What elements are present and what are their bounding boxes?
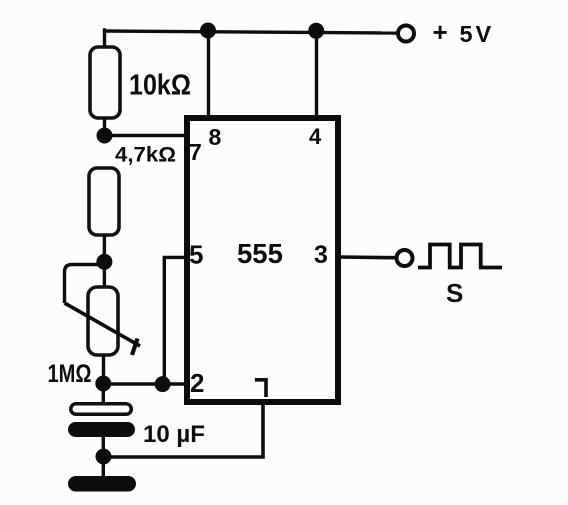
wire to pin 7 <box>105 134 187 137</box>
node junction pin8/rail <box>200 23 216 39</box>
capacitor C1 positive plate <box>71 404 132 415</box>
ground bar <box>68 476 136 492</box>
svg-text:8: 8 <box>209 124 222 150</box>
wire R1 top lead <box>105 30 107 46</box>
potentiometer P1 wiper tick <box>132 339 138 356</box>
svg-text:10kΩ: 10kΩ <box>129 70 191 102</box>
svg-text:+: + <box>433 17 448 47</box>
wire pot top lead <box>103 262 106 287</box>
wire pin 8 to rail <box>207 31 210 116</box>
svg-text:555: 555 <box>237 238 283 269</box>
node junction R2/pot <box>96 254 112 270</box>
potentiometer P1 body <box>88 287 118 355</box>
wire ground lead <box>102 457 105 477</box>
wire C1 top lead <box>102 384 105 403</box>
svg-text:2: 2 <box>190 368 204 398</box>
terminal output <box>397 250 413 266</box>
svg-text:4: 4 <box>309 124 322 149</box>
op-amp U1 555 IC body <box>187 118 338 402</box>
wire pot bottom lead <box>102 355 105 384</box>
terminal +5V <box>398 26 414 42</box>
wire R1 bottom lead <box>103 118 106 136</box>
node junction R1/R2/pin7 <box>97 128 113 144</box>
wire pin 1 to ground junction <box>104 402 264 457</box>
resistor R2 4,7kΩ <box>89 168 119 235</box>
capacitor C1 negative plate <box>68 422 135 437</box>
resistor R1 10kΩ <box>90 47 120 118</box>
svg-text:7: 7 <box>189 139 202 165</box>
svg-text:5: 5 <box>460 21 473 47</box>
pin 1 label <box>255 380 266 397</box>
wire C1 bottom lead <box>102 437 105 457</box>
wire to pin 2 <box>103 382 186 385</box>
wire pot wiper bypass <box>65 265 105 304</box>
svg-text:4,7kΩ: 4,7kΩ <box>115 143 176 167</box>
wire pin 4 to rail <box>315 31 318 116</box>
svg-text:V: V <box>476 21 492 47</box>
node junction pin5 wire on pin2 wire <box>155 376 171 392</box>
wire top rail +5V <box>105 31 398 33</box>
svg-text:5: 5 <box>189 240 203 270</box>
wire pin 5 to junction <box>164 257 186 384</box>
svg-text:3: 3 <box>314 241 328 269</box>
wire R2 bottom lead <box>103 235 106 262</box>
svg-text:1MΩ: 1MΩ <box>48 360 92 388</box>
svg-text:10 µF: 10 µF <box>143 421 205 448</box>
potentiometer P1 wiper diagonal <box>65 303 141 346</box>
node junction pin4/rail <box>308 23 324 39</box>
svg-text:S: S <box>446 278 463 308</box>
wire pin 3 output <box>341 255 395 259</box>
square wave symbol <box>418 245 502 268</box>
node junction pot/C1/pin2 <box>95 376 111 392</box>
node junction C1/ground/pin1 <box>96 449 112 465</box>
